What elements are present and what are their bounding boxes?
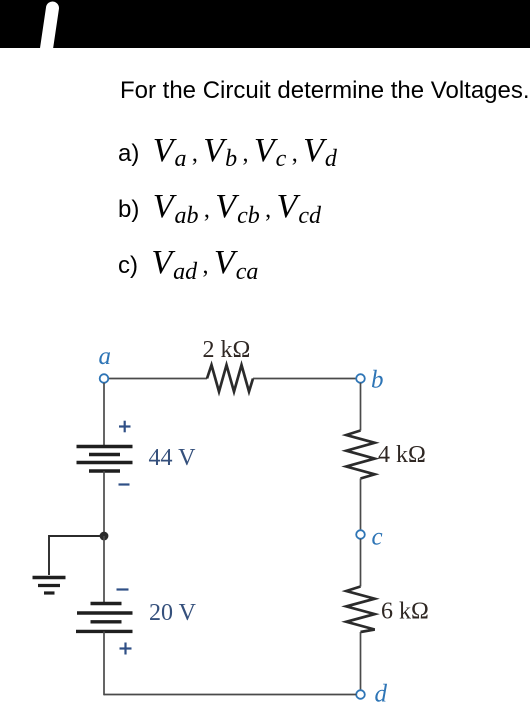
node b (open terminal) [356, 374, 365, 383]
svg-text:c: c [372, 524, 383, 551]
svg-text:d: d [375, 681, 388, 708]
wire: junction down to 20V battery [103, 536, 105, 603]
value label 44 V [149, 445, 197, 471]
title text [120, 77, 530, 105]
item a [118, 132, 337, 170]
ground [33, 578, 66, 594]
svg-text:2 kΩ: 2 kΩ [203, 337, 251, 363]
wire: 6k resistor to node d [360, 632, 362, 690]
white slash mark [0, 0, 530, 48]
value label 4 kOhm [378, 442, 426, 468]
wire: node b down to 4k resistor [360, 383, 362, 431]
item c [118, 244, 258, 282]
svg-text:44 V: 44 V [149, 445, 197, 471]
svg-text:b: b [371, 367, 384, 394]
wire: 20V battery down to bottom wire [103, 631, 105, 695]
node a (open terminal) [100, 374, 109, 383]
value label 2 kOhm [203, 337, 251, 363]
minus sign of 20V [117, 588, 129, 590]
value label 6 kOhm [381, 599, 429, 625]
battery 44 V [77, 447, 133, 472]
node c (open terminal) [356, 530, 365, 539]
node label c [372, 524, 383, 551]
resistor 2 kOhm (horizontal zigzag) [207, 365, 253, 392]
plus sign of 44V [119, 421, 131, 433]
value label 20 V [149, 600, 197, 626]
wire: 4k resistor to node c [360, 479, 362, 531]
svg-text:20 V: 20 V [149, 600, 197, 626]
svg-text:6 kΩ: 6 kΩ [381, 599, 429, 625]
wire: 2k resistor to node b (top right segment) [253, 378, 356, 380]
wire: node a down to 44V battery [103, 383, 105, 446]
node label d [375, 681, 388, 708]
wire: junction to ground (left then down) [49, 536, 104, 575]
wire: node a to 2k resistor (top left segment) [109, 378, 208, 380]
plus sign of 20V [120, 643, 132, 655]
node label b [371, 367, 384, 394]
resistor 4 kOhm (vertical zigzag) [346, 431, 374, 479]
resistor 6 kOhm (vertical zigzag) [346, 587, 374, 633]
node d (open terminal) [356, 690, 365, 699]
wire: bottom (node d to left branch) [104, 694, 356, 696]
svg-text:4 kΩ: 4 kΩ [378, 442, 426, 468]
header bar [0, 0, 530, 48]
junction node (solid dot) [100, 532, 109, 541]
minus sign of 44V [119, 483, 130, 485]
node label a [99, 343, 112, 370]
svg-text:a: a [99, 343, 112, 370]
item b [118, 188, 321, 226]
wire: 44V battery to junction [103, 471, 105, 536]
battery 20 V [76, 604, 133, 632]
wire: node c down to 6k resistor [360, 539, 362, 587]
